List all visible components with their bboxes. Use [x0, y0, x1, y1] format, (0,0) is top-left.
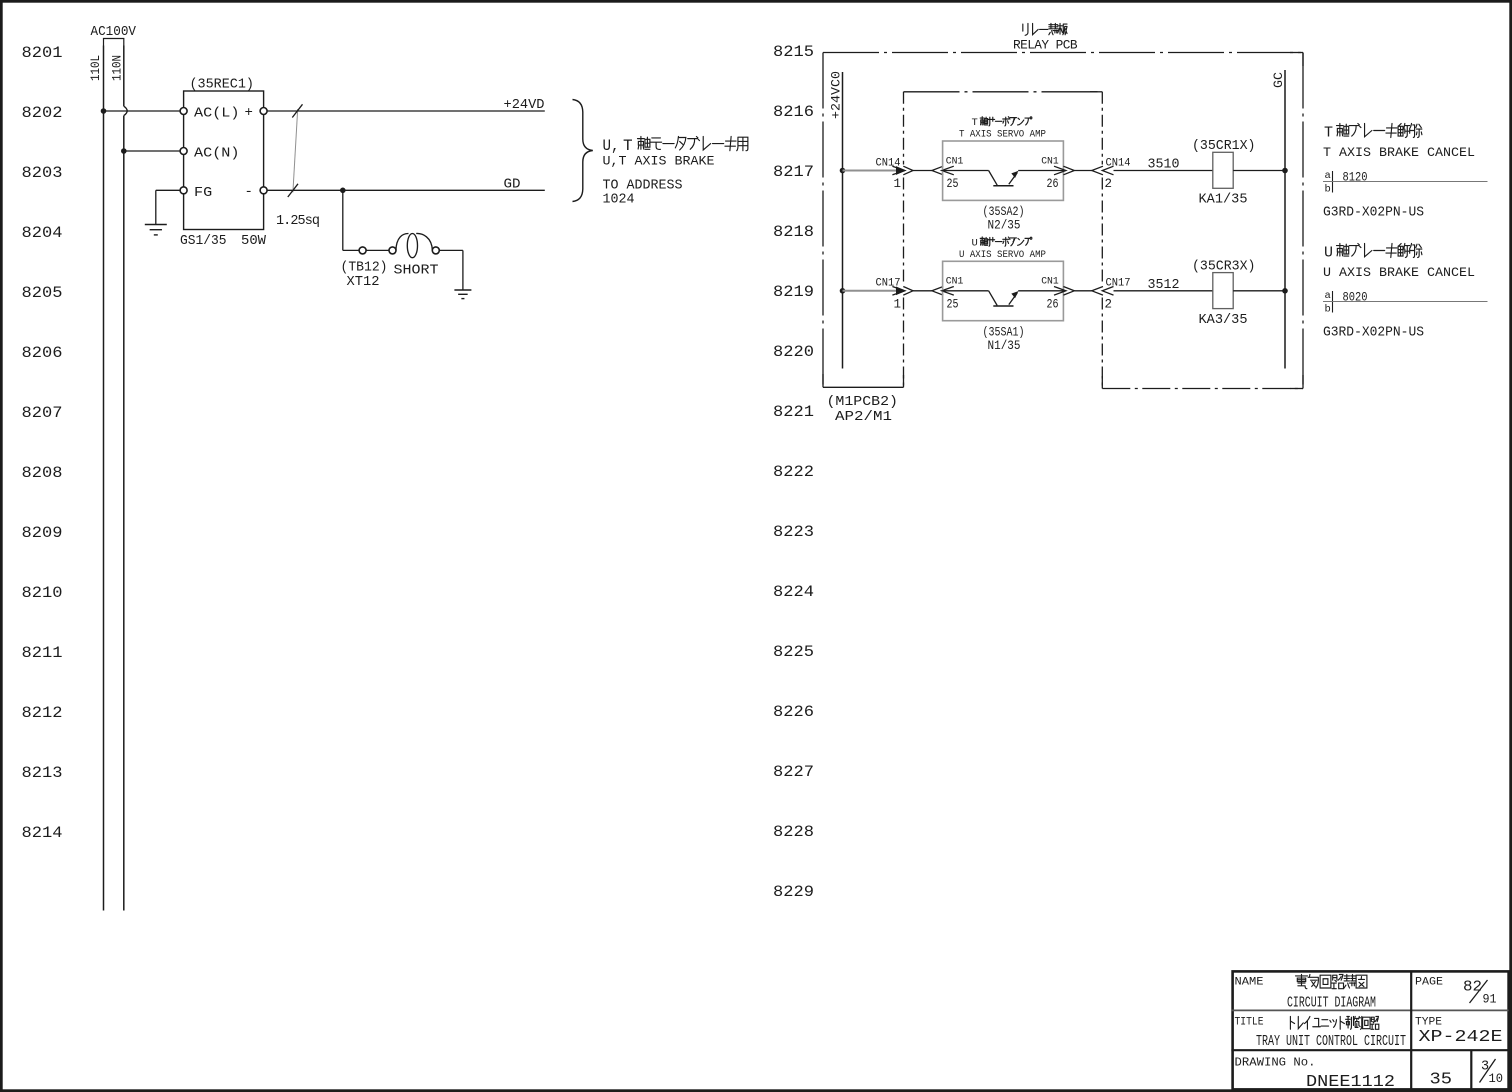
label relay PCB (Japanese)	[1023, 24, 1028, 36]
SHORT jumper loop	[396, 233, 409, 250]
net +24VC0 vertical wire	[842, 72, 844, 369]
svg-text:8223: 8223	[773, 523, 814, 541]
svg-text:NAME: NAME	[1235, 977, 1264, 989]
svg-text:8218: 8218	[773, 223, 814, 241]
svg-text:XP-242E: XP-242E	[1419, 1028, 1503, 1047]
svg-text:U: U	[972, 238, 978, 250]
svg-text:8212: 8212	[22, 704, 63, 722]
svg-text:TYPE: TYPE	[1415, 1017, 1442, 1029]
svg-text:U AXIS BRAKE CANCEL: U AXIS BRAKE CANCEL	[1323, 265, 1475, 280]
svg-text:82: 82	[1463, 980, 1482, 996]
brace	[573, 100, 593, 202]
svg-text:a: a	[1325, 290, 1331, 302]
svg-text:3510: 3510	[1148, 158, 1180, 173]
wire to servo amp	[913, 170, 932, 172]
node junction GC	[1282, 168, 1288, 174]
servo amp box	[943, 261, 1064, 320]
svg-text:(TB12): (TB12)	[341, 261, 388, 276]
wire GD	[267, 189, 545, 191]
relay coil 35CR1X	[1213, 152, 1233, 188]
svg-text:KA3/35: KA3/35	[1199, 313, 1248, 328]
svg-text:G3RD-X02PN-US: G3RD-X02PN-US	[1323, 326, 1424, 341]
svg-text:2: 2	[1105, 297, 1113, 311]
terminal XT12 c	[432, 247, 439, 254]
svg-text:U,T AXIS BRAKE: U,T AXIS BRAKE	[603, 154, 715, 169]
wire 110N to AC(N)	[124, 150, 181, 152]
net GC vertical wire	[1284, 70, 1286, 369]
svg-text:SHORT: SHORT	[394, 264, 439, 279]
node junction on 110L row 8202	[101, 108, 107, 114]
svg-text:1: 1	[894, 177, 902, 191]
svg-text:(35REC1): (35REC1)	[190, 78, 255, 93]
svg-text:2: 2	[1105, 177, 1113, 191]
node junction +24VC0 row	[840, 288, 846, 294]
svg-text:8208: 8208	[22, 464, 63, 482]
wire into transistor	[942, 170, 989, 172]
svg-text:a: a	[1325, 170, 1331, 182]
svg-text:U,: U,	[603, 137, 620, 155]
svg-text:b: b	[1325, 304, 1331, 316]
connector CN1 pin 25 chevrons	[932, 287, 943, 296]
wire 110L vertical	[103, 46, 105, 911]
svg-text:TITLE: TITLE	[1235, 1017, 1264, 1029]
svg-text:CN1: CN1	[946, 276, 964, 288]
svg-text:DRAWING No.: DRAWING No.	[1235, 1057, 1316, 1070]
svg-text:3512: 3512	[1148, 278, 1180, 293]
svg-text:T: T	[972, 117, 978, 129]
svg-text:TRAY UNIT CONTROL CIRCUIT: TRAY UNIT CONTROL CIRCUIT	[1256, 1033, 1406, 1050]
svg-text:RELAY PCB: RELAY PCB	[1013, 37, 1078, 52]
svg-text:1024: 1024	[603, 193, 635, 208]
svg-text:35: 35	[1430, 1070, 1453, 1089]
svg-text:CN17: CN17	[876, 278, 901, 290]
wire net 3510	[1114, 170, 1214, 172]
svg-text:GS1/35: GS1/35	[180, 234, 227, 249]
terminal XT12 b	[389, 247, 396, 254]
wire between XT12 terminals	[366, 249, 389, 251]
wire into transistor	[942, 290, 989, 292]
svg-text:U: U	[1324, 245, 1333, 262]
connector CN17 pin 1 arrow	[897, 287, 906, 294]
svg-text:T AXIS BRAKE CANCEL: T AXIS BRAKE CANCEL	[1323, 145, 1475, 160]
svg-text:8211: 8211	[22, 644, 63, 662]
title circuit diagram (Japanese)	[1296, 975, 1308, 989]
wire transistor to pin 26	[1018, 290, 1064, 292]
terminal AC(N)	[180, 148, 187, 155]
svg-text:(35CR3X): (35CR3X)	[1192, 259, 1256, 274]
wire to servo amp	[913, 290, 932, 292]
svg-text:8209: 8209	[22, 524, 63, 542]
svg-text:T: T	[623, 137, 633, 155]
svg-text:AP2/M1: AP2/M1	[835, 410, 892, 425]
svg-text:+24VC0: +24VC0	[829, 71, 844, 119]
svg-text:CN14: CN14	[876, 157, 901, 169]
svg-text:(M1PCB2): (M1PCB2)	[827, 395, 899, 410]
svg-text:TO ADDRESS: TO ADDRESS	[603, 179, 683, 194]
svg-text:8216: 8216	[773, 103, 814, 121]
svg-text:8222: 8222	[773, 463, 814, 481]
svg-text:8229: 8229	[773, 883, 814, 901]
svg-text:8213: 8213	[22, 764, 63, 782]
rectifier GS1 (35REC1) box	[184, 91, 264, 230]
svg-text:CN1: CN1	[1041, 155, 1059, 167]
svg-text:8210: 8210	[22, 584, 63, 602]
svg-text:CN1: CN1	[946, 155, 964, 167]
wire to ground	[439, 249, 463, 251]
svg-text:8228: 8228	[773, 823, 814, 841]
wire to boundary	[1074, 170, 1092, 172]
svg-text:8205: 8205	[22, 284, 63, 302]
svg-text:T: T	[1324, 125, 1333, 142]
svg-text:8215: 8215	[773, 43, 814, 61]
connector CN14 pin 1 arrow	[897, 167, 906, 174]
dashed box corner stubs	[1302, 53, 1304, 67]
ground (FG)	[145, 224, 167, 226]
svg-text:8219: 8219	[773, 283, 814, 301]
title block frame	[1233, 971, 1509, 1089]
svg-text:8204: 8204	[22, 224, 63, 242]
svg-text:GD: GD	[504, 177, 521, 192]
svg-text:CN1: CN1	[1041, 276, 1059, 288]
svg-text:50W: 50W	[241, 234, 267, 249]
svg-text:FG: FG	[194, 185, 212, 201]
svg-text:AC(L): AC(L)	[194, 106, 240, 122]
terminal AC(L)	[180, 108, 187, 115]
svg-text:8220: 8220	[773, 343, 814, 361]
svg-text:(35CR1X): (35CR1X)	[1192, 139, 1256, 154]
wire CN14 pin1 (gray)	[843, 170, 899, 172]
svg-text:AC(N): AC(N)	[194, 146, 240, 162]
svg-text:8221: 8221	[773, 403, 814, 421]
svg-text:8226: 8226	[773, 703, 814, 721]
output transistor symbol	[989, 171, 998, 186]
connector CN17 pin 2 chevrons	[1092, 287, 1103, 296]
svg-text:CIRCUIT DIAGRAM: CIRCUIT DIAGRAM	[1287, 995, 1376, 1012]
connector CN1 pin 25 chevrons	[932, 166, 943, 175]
connector CN1 pin 26 chevrons	[1054, 287, 1066, 296]
svg-text:26: 26	[1047, 297, 1059, 311]
svg-text:25: 25	[947, 177, 959, 191]
node junction GD branch	[340, 188, 346, 194]
svg-text:XT12: XT12	[347, 275, 380, 290]
svg-text:PAGE: PAGE	[1415, 977, 1443, 989]
svg-text:-: -	[245, 184, 253, 200]
svg-text:8225: 8225	[773, 643, 814, 661]
relay coil 35CR3X	[1213, 273, 1233, 309]
svg-text:8214: 8214	[22, 824, 63, 842]
servo-amp area dashed box	[904, 91, 1103, 93]
svg-text:CN17: CN17	[1106, 278, 1131, 290]
svg-text:8202: 8202	[22, 104, 63, 122]
svg-text:AC100V: AC100V	[91, 25, 137, 40]
svg-text:KA1/35: KA1/35	[1199, 193, 1248, 208]
wire coil to GC	[1233, 290, 1285, 292]
svg-text:110L: 110L	[88, 55, 103, 81]
terminal XT12 a	[359, 247, 366, 254]
svg-text:DNEE1112: DNEE1112	[1306, 1073, 1395, 1092]
wire GD down to XT12	[342, 190, 344, 250]
svg-text:8120: 8120	[1343, 170, 1368, 185]
svg-text:8203: 8203	[22, 164, 63, 182]
svg-text:10: 10	[1489, 1072, 1504, 1086]
wire transistor to pin 26	[1018, 170, 1064, 172]
output transistor symbol	[989, 291, 998, 306]
connector CN14 pin 2 chevrons	[1092, 166, 1103, 175]
wire net 3512	[1114, 290, 1214, 292]
svg-text:+24VD: +24VD	[504, 98, 545, 113]
svg-text:8201: 8201	[22, 44, 63, 62]
node junction +24VC0 row	[840, 168, 846, 174]
svg-text:8227: 8227	[773, 763, 814, 781]
terminal FG	[180, 187, 187, 194]
node junction GC	[1282, 288, 1288, 294]
connector CN1 pin 26 chevrons	[1054, 166, 1066, 175]
wire CN17 pin1 (gray)	[843, 290, 899, 292]
wire coil to GC	[1233, 170, 1285, 172]
servo amp box	[943, 141, 1064, 200]
wire FG to ground	[156, 189, 181, 191]
svg-text:110N: 110N	[110, 55, 125, 81]
svg-text:25: 25	[947, 297, 959, 311]
wire 110N vertical with hop over 8202 wire	[123, 46, 125, 107]
title tray unit control circuit (Japanese)	[1290, 1017, 1294, 1030]
wire +24VD	[267, 110, 545, 112]
wire 110L to AC(L)	[104, 110, 181, 112]
svg-text:GC: GC	[1271, 72, 1286, 88]
svg-text:CN14: CN14	[1106, 157, 1131, 169]
svg-text:N2/35: N2/35	[988, 218, 1021, 233]
svg-text:G3RD-X02PN-US: G3RD-X02PN-US	[1323, 206, 1424, 221]
svg-text:1.25sq: 1.25sq	[276, 214, 320, 229]
svg-text:91: 91	[1483, 993, 1497, 1007]
svg-text:T AXIS SERVO AMP: T AXIS SERVO AMP	[959, 130, 1046, 141]
AC100V bracket	[104, 39, 124, 46]
svg-text:+: +	[245, 105, 253, 121]
svg-text:N1/35: N1/35	[988, 338, 1021, 353]
svg-text:8224: 8224	[773, 583, 814, 601]
wire to boundary	[1074, 290, 1092, 292]
svg-text:8217: 8217	[773, 163, 814, 181]
svg-text:26: 26	[1047, 177, 1059, 191]
relay PCB dashed box outline	[823, 52, 1303, 54]
svg-text:b: b	[1325, 184, 1331, 196]
node junction on 110N	[121, 148, 127, 154]
svg-text:8206: 8206	[22, 344, 63, 362]
svg-text:1: 1	[894, 297, 902, 311]
svg-text:8020: 8020	[1343, 290, 1368, 305]
svg-text:8207: 8207	[22, 404, 63, 422]
wire-size marker 1.25sq: tie line and slashes	[293, 109, 298, 192]
ground (SHORT)	[454, 289, 471, 291]
svg-text:U AXIS SERVO AMP: U AXIS SERVO AMP	[959, 250, 1046, 261]
